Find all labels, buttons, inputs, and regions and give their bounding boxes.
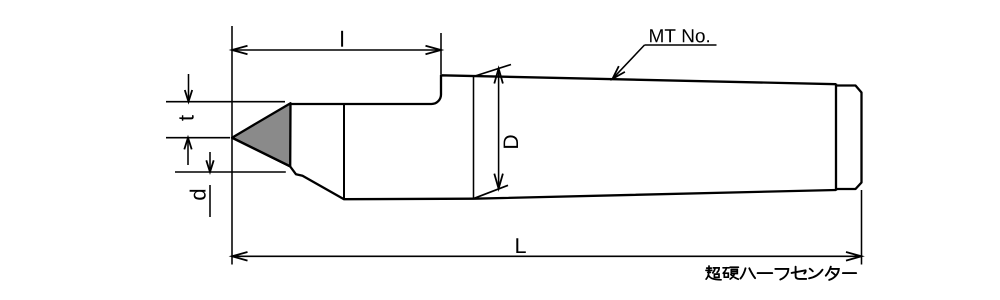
- label D (rotated): [504, 135, 518, 148]
- 硬: [723, 267, 738, 279]
- body outline: flat top, fillet, step, taper top: [291, 75, 837, 104]
- label L: [516, 238, 526, 253]
- dimension t bottom arrow: [187, 138, 189, 165]
- D bottom arrowhead: [494, 174, 503, 189]
- dimension l line: [232, 49, 441, 51]
- carbide insert tip (gray triangle): [232, 103, 291, 166]
- ハ: [741, 268, 756, 278]
- extension line: d level: [175, 171, 286, 173]
- extension line: l right vertical: [440, 33, 442, 74]
- ー: [758, 272, 773, 274]
- extension line: flat top level, left: [166, 101, 285, 103]
- dimension D line: [498, 69, 500, 189]
- MT No. label: [650, 29, 709, 42]
- label l: [341, 31, 343, 47]
- cone lower edge, pilot bottom, taper bottom: [232, 138, 836, 200]
- D top arrowhead: [494, 69, 503, 84]
- D top tick: [474, 65, 512, 77]
- セ: [792, 267, 807, 279]
- cap left vertical edge: [835, 84, 837, 191]
- label d (rotated): [190, 190, 206, 200]
- dimension t top arrow: [188, 74, 190, 102]
- L left arrowhead: [232, 252, 248, 261]
- end cap with chamfers: [836, 86, 862, 190]
- MT No. underline: [645, 44, 717, 46]
- Japanese caption 超硬ハーフセンター drawn as paths: [706, 266, 856, 280]
- extension line: right main vertical: [861, 190, 863, 265]
- MT No. leader: [613, 45, 645, 79]
- extension line: left main vertical: [231, 26, 233, 265]
- dimension d arrow: [209, 152, 211, 172]
- L right arrowhead: [846, 252, 862, 261]
- l right arrowhead: [426, 46, 442, 55]
- dimension L line: [232, 255, 862, 257]
- 超: [706, 266, 721, 280]
- d lower segment: [209, 185, 211, 217]
- ン: [809, 269, 822, 279]
- フ: [775, 269, 788, 280]
- label t (rotated): [179, 115, 193, 121]
- D gauge line: [473, 76, 475, 199]
- タ: [826, 267, 839, 280]
- l left arrowhead: [232, 46, 248, 55]
- vertical edge cone/pilot transition: [343, 104, 345, 199]
- MT leader arrowhead: [613, 66, 625, 79]
- D bottom tick: [474, 185, 509, 198]
- extension line: apex level: [166, 137, 230, 139]
- ー: [843, 272, 856, 274]
